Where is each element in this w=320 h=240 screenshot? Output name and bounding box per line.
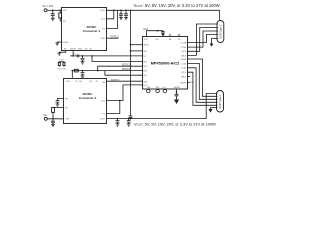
wire GNDB stub [188, 82, 190, 84]
wire VOUT2 VBUS B [107, 94, 218, 119]
wire 3V3 [59, 61, 65, 64]
wire VIN2 feed down to converter 2 [71, 71, 73, 78]
wire VIN [47, 9, 61, 11]
node junction [52, 118, 54, 120]
wire VCC [147, 31, 163, 37]
svg-text:CC1B: CC1B [181, 63, 187, 65]
wire SBU B [188, 76, 191, 78]
svg-text:GND: GND [190, 82, 195, 84]
wire VCC1 to rail [106, 10, 113, 18]
wire to IC pin row y75.7 [72, 70, 142, 72]
svg-text:DCDC1: DCDC1 [122, 64, 131, 67]
wire to IC pin row y64.5 [98, 66, 142, 70]
svg-text:VBUS: VBUS [143, 45, 149, 47]
svg-text:VOUT: 5V, 9V, 15V, 20V, or 3.3: VOUT: 5V, 9V, 15V, 20V, or 3.3V to 21V a… [134, 121, 216, 126]
ground [81, 62, 85, 64]
USB Type-C receptacle J3 [217, 91, 224, 113]
svg-text:Converter 1: Converter 1 [83, 29, 100, 33]
ground [124, 18, 128, 20]
svg-text:CC2B: CC2B [181, 68, 187, 70]
wire to IC pin row y68 [105, 71, 142, 76]
wire VIN sense to IC [131, 50, 143, 52]
svg-text:VOUT: VOUT [100, 10, 106, 12]
svg-text:DP A: DP A [181, 50, 186, 53]
wire row TD [70, 55, 142, 57]
svg-text:RGND: RGND [63, 42, 69, 44]
ground arrow [210, 44, 214, 47]
ground [51, 18, 55, 20]
svg-text:VIN = 12V: VIN = 12V [42, 5, 53, 8]
IC U1 MPF53000 [143, 37, 188, 90]
wire DPA [188, 28, 219, 52]
wire AGND [176, 89, 178, 94]
pin stub NC [178, 34, 180, 37]
svg-text:DCDC1: DCDC1 [111, 36, 120, 39]
wire DPB [188, 68, 218, 103]
svg-text:VIN: VIN [66, 81, 70, 83]
svg-text:VIN: VIN [66, 119, 70, 121]
net DCDC2 wire to IC [107, 80, 143, 82]
wire long vertical VBUS tie [130, 10, 132, 115]
capacitor C11 [129, 116, 133, 119]
node junction [52, 10, 54, 12]
wire CC1A [188, 35, 219, 43]
ground [51, 125, 55, 127]
svg-text:CC2A: CC2A [181, 46, 187, 49]
resistor R1 [59, 10, 61, 13]
resistor RN2 [63, 63, 65, 66]
ground [116, 124, 120, 126]
wire VIN2 [47, 118, 64, 120]
svg-text:MPF53000-A/C2: MPF53000-A/C2 [151, 61, 180, 65]
svg-text:DCDC2: DCDC2 [111, 79, 120, 82]
DC/DC converter 2 box [64, 79, 107, 124]
svg-text:Converter 2: Converter 2 [79, 96, 96, 100]
wire DMA [188, 24, 219, 55]
wire stub [72, 51, 74, 56]
svg-text:SW: SW [102, 82, 105, 84]
capacitor C6 on FB [56, 98, 64, 104]
wire DMB [188, 72, 218, 105]
pin stub NC [169, 34, 171, 37]
svg-text:USB Type-C: USB Type-C [218, 24, 222, 38]
wire CC1B [188, 59, 218, 96]
USB Type-C receptacle J2 [217, 21, 224, 43]
svg-text:VIN: VIN [63, 10, 67, 12]
svg-text:DP B: DP B [181, 72, 186, 74]
capacitor C10 [175, 94, 179, 99]
resistor R2 inline [74, 69, 78, 72]
svg-text:AGND: AGND [70, 47, 76, 50]
ground [119, 18, 123, 20]
wire CC2B [188, 63, 218, 99]
ground [81, 76, 85, 78]
wire FB1 to ground [59, 51, 66, 54]
input terminal J1 [44, 9, 47, 12]
pad PA1 [147, 90, 151, 93]
svg-text:VIN: VIN [143, 51, 147, 53]
svg-text:VCC: VCC [144, 39, 149, 41]
wire PG2 [107, 101, 120, 114]
capacitor C5 [81, 71, 85, 76]
ground arrow [174, 100, 179, 105]
svg-text:DM A: DM A [181, 54, 187, 57]
net DCDC1 stub [106, 37, 118, 39]
wire to IC pin row y61 [92, 56, 142, 62]
capacitor C3 [124, 10, 128, 17]
svg-text:GNDB: GNDB [180, 82, 186, 84]
ground [56, 104, 60, 106]
wire ground pin J3 [211, 108, 218, 110]
svg-text:VCC: VCC [101, 100, 106, 102]
capacitor C9 [161, 31, 165, 34]
svg-text:PG: PG [102, 113, 105, 115]
svg-text:VOUT: VOUT [100, 118, 106, 120]
wire CC2A [188, 31, 219, 47]
pad PB1 [156, 90, 160, 93]
svg-text:VOUT: 5V, 9V, 15V, 20V, or 3.3: VOUT: 5V, 9V, 15V, 20V, or 3.3V to 27V a… [134, 3, 220, 8]
input terminal J4 [44, 117, 47, 120]
svg-text:NTC: NTC [62, 68, 67, 70]
svg-text:VCC: VCC [101, 19, 106, 21]
capacitor C8 [127, 119, 131, 124]
resistor R8 [52, 112, 54, 118]
svg-text:DCDC2: DCDC2 [122, 68, 131, 71]
DC/DC converter 1 box [62, 8, 107, 51]
ground RGND [57, 42, 61, 43]
wire VCC2 to IC [107, 85, 143, 101]
ground [127, 124, 131, 126]
svg-text:GND: GND [101, 38, 106, 40]
svg-text:PG: PG [102, 28, 105, 30]
svg-text:VIN: VIN [155, 39, 159, 41]
wire VBUS rail [106, 10, 219, 20]
capacitor C2 [119, 10, 123, 17]
capacitor series ticks [77, 54, 79, 57]
svg-text:USB Type-C: USB Type-C [218, 94, 222, 108]
svg-text:CC1A: CC1A [181, 42, 187, 45]
wire to EN2 [53, 106, 64, 108]
svg-text:VBSB: VBSB [181, 59, 187, 61]
node junction [113, 10, 115, 12]
capacitor C7 [116, 119, 120, 124]
wire PG1 to rail [106, 10, 117, 28]
svg-text:AGND: AGND [174, 86, 180, 89]
ground arrow [161, 34, 165, 37]
svg-text:3.3V: 3.3V [59, 60, 64, 62]
wire VBUS sense to IC [131, 44, 143, 46]
capacitor C1 [51, 10, 55, 18]
svg-text:DM B: DM B [181, 77, 187, 79]
resistor RN1 [58, 63, 60, 66]
ground [57, 53, 61, 55]
node junction [59, 10, 61, 12]
capacitor C4 [81, 56, 85, 62]
ground arrow [208, 109, 212, 113]
pad CC1 [163, 90, 167, 93]
capacitor C12 [51, 119, 55, 125]
wire to EN [60, 18, 61, 21]
wire ground pin J2 [212, 39, 219, 44]
